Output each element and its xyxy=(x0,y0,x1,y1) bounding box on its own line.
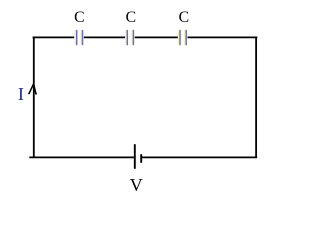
wire left side xyxy=(33,37,35,158)
capacitor C2 xyxy=(126,30,133,45)
svg-text:C: C xyxy=(74,9,84,26)
svg-text:I: I xyxy=(18,84,24,104)
wire between C2 and C3 xyxy=(135,36,179,38)
wire bottom-left segment xyxy=(29,156,134,158)
capacitor C1 xyxy=(75,30,82,45)
capacitor C3 xyxy=(179,30,187,45)
wire right side xyxy=(255,37,257,158)
battery V short plate xyxy=(140,154,142,163)
wire between C1 and C2 xyxy=(84,36,126,38)
svg-text:C: C xyxy=(179,9,189,26)
wire bottom-right segment xyxy=(141,156,257,158)
battery V long plate xyxy=(134,144,136,169)
svg-text:V: V xyxy=(130,175,143,192)
wire top-left segment xyxy=(33,36,75,38)
wire top-right segment xyxy=(188,36,258,38)
current arrow on left wire xyxy=(28,84,37,95)
svg-text:C: C xyxy=(126,9,136,26)
